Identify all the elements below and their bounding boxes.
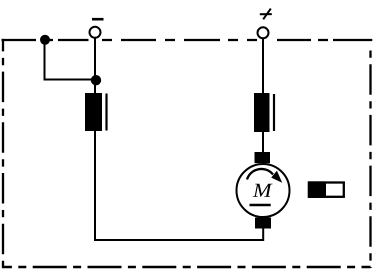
frame: left dash-dot boundary line: [2, 39, 4, 267]
wire: motor bottom brush to bottom wire: [262, 228, 264, 241]
motor M (permanent-magnet DC motor): [237, 164, 290, 217]
motor rotation direction arrow: [247, 169, 282, 183]
wire from bus junction down and right to lower junction: [45, 40, 97, 80]
choke/suppressor L1 (filled rect with core line): [85, 93, 107, 131]
choke/suppressor L2 (filled rect with core line): [254, 93, 274, 132]
wire stub right of junction dot: [50, 39, 54, 41]
motor top brush block: [255, 152, 271, 163]
terminal circle "-" (negative supply): [90, 27, 101, 38]
wire: negative terminal down through choke to bottom, then right: [95, 39, 263, 241]
wire: positive terminal down to motor top brush: [262, 39, 264, 154]
junction dot below negative terminal: [91, 75, 101, 85]
label "-" (minus): [92, 18, 104, 21]
frame: top dash-dot boundary line: [2, 39, 373, 41]
frame: bottom dash-dot boundary line: [2, 266, 371, 268]
terminal circle "+" (positive supply): [258, 27, 269, 38]
motor bottom brush block: [255, 218, 271, 229]
frame: right dash-dot boundary line: [369, 44, 371, 268]
junction dot on top bus: [40, 35, 50, 45]
indicator block (half filled box): [308, 181, 344, 198]
label "+" (plus, italic): [260, 9, 272, 20]
